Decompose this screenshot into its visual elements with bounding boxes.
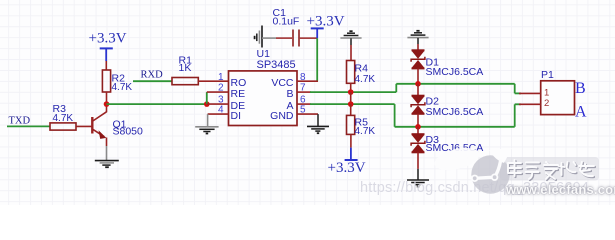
junction RE/DE tie [204,101,210,107]
pin 8 stub [297,80,318,82]
connector P1 [541,69,575,115]
pin numbers left [218,72,224,116]
wire D2 to A net [417,114,419,127]
char 2 zi [527,164,541,181]
junction D1/B [415,81,421,87]
pin names left [231,77,247,122]
diode D3 SMCJ6.5CA [411,134,483,154]
junction R4/B [348,89,354,95]
pin names right [270,77,294,122]
pin numbers right [300,72,306,116]
svg-text:RXD: RXD [141,69,164,80]
wire A net [310,104,521,127]
ground (top, above D1) [407,31,428,38]
svg-text:A: A [575,103,587,120]
diode D1 SMCJ6.5CA [411,50,483,78]
svg-text:SP3485: SP3485 [257,59,296,71]
ground (rotated, left of C1) [255,26,262,48]
power +3.3V (top-left) [89,31,127,61]
svg-text:4.7K: 4.7K [112,82,133,93]
capacitor C1 plates [292,30,294,47]
svg-text:1: 1 [544,87,549,98]
svg-text:TXD: TXD [9,116,31,127]
svg-text:2: 2 [544,98,549,109]
svg-text:2: 2 [218,83,224,94]
svg-text:B: B [286,88,293,100]
char 1 dian [509,161,522,177]
junction collector node [104,101,110,107]
svg-text:S8050: S8050 [113,126,144,138]
wire junction to R5 [350,104,352,115]
svg-text:+3.3V: +3.3V [89,31,127,47]
wire RXD to R1 [133,80,172,82]
svg-text:P1: P1 [541,69,554,81]
transistor Q1 S8050 [92,104,143,146]
ground right of U1 [307,126,329,133]
diode D2 SMCJ6.5CA [411,96,483,119]
pin 4 stub [208,113,229,115]
resistor R2 [102,70,132,93]
wire R2 to collector node [106,92,108,104]
svg-text:0.1uF: 0.1uF [273,15,300,27]
power +3.3V (bottom) [328,148,366,176]
resistor R3 [50,103,76,130]
svg-text:4.7K: 4.7K [355,126,376,137]
pin 1 stub P1 [519,92,541,94]
resistor R5 [347,115,376,136]
svg-text:SMCJ6.5CA: SMCJ6.5CA [426,66,484,78]
svg-text:SMCJ6.5CA: SMCJ6.5CA [426,142,484,154]
wire R5 to +3.3V [350,134,352,147]
pin 3 stub [207,103,229,105]
svg-text:SMCJ6.5CA: SMCJ6.5CA [426,106,484,118]
junction R5/A [348,101,354,107]
svg-text:DI: DI [231,110,242,122]
wire A net to D3 [417,127,419,134]
svg-text:GND: GND [270,110,294,122]
wire R4 to B net [350,83,352,92]
svg-text:1: 1 [218,72,224,83]
svg-text:+3.3V: +3.3V [328,160,366,176]
char 3 fa [545,163,559,180]
pin 2 stub P1 [519,103,541,105]
pin 6 stub [297,103,311,105]
wire C1 to +3.3V [300,37,317,39]
svg-text:R4: R4 [355,62,369,74]
op-amp U1 SP3485 box [229,48,298,126]
ground under Q1 [95,161,119,168]
char 5 you [580,163,595,177]
wire ground to C1 [262,37,276,39]
junction D2/A [415,124,421,130]
wire TXD to R3 [7,125,50,127]
resistor R4 [347,61,376,86]
svg-text:B: B [575,80,586,97]
wire between junctions [350,92,352,104]
wire B net [310,84,521,94]
char 4 shao [560,163,577,176]
wire pin5 to ground [317,114,319,126]
wire +3.3V to R2 [105,61,107,70]
power +3.3V (top-right) [307,13,345,38]
svg-text:RE: RE [231,88,246,100]
wire D1 to B net [417,68,419,83]
ground (top, above R4) [340,31,361,38]
svg-text:4: 4 [218,105,224,116]
svg-text:1K: 1K [179,62,192,74]
watermark www.elecfans.com [506,182,615,197]
wire R1 to U1 pin1 [198,80,228,82]
svg-text:4.7K: 4.7K [53,113,74,124]
pin 7 stub [297,91,311,93]
wire ground to D1 [417,38,419,44]
resistor R1 [172,54,198,84]
wire R3 to Q1 base [76,125,92,127]
svg-text:+3.3V: +3.3V [307,13,345,29]
wire collector node to U1 (RE/DE) [107,103,207,105]
wire B net to D2 [417,84,419,96]
svg-text:4.7K: 4.7K [355,74,376,85]
wire D3 to ground [417,152,419,169]
pin 5 stub [297,113,318,115]
wire ground to R4 [350,38,352,45]
watermark csdn [360,180,589,196]
pin 2 stub [207,91,229,93]
wire Q1 emitter to ground [106,146,108,160]
wire pin4 to ground [207,114,209,126]
ground under pin4 [195,127,218,134]
ground under D3 [407,180,429,187]
wire RE to DE vertical [206,92,208,104]
wire +3.3V down to pin8 [316,38,318,81]
